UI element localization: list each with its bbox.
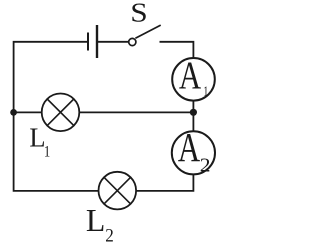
svg-text:1: 1 <box>44 143 50 161</box>
svg-text:S: S <box>130 0 147 28</box>
svg-text:2: 2 <box>200 153 211 176</box>
svg-text:2: 2 <box>105 224 114 243</box>
svg-text:1: 1 <box>203 83 208 99</box>
svg-text:A: A <box>179 52 202 97</box>
svg-text:A: A <box>178 125 200 170</box>
svg-text:L: L <box>86 203 105 238</box>
